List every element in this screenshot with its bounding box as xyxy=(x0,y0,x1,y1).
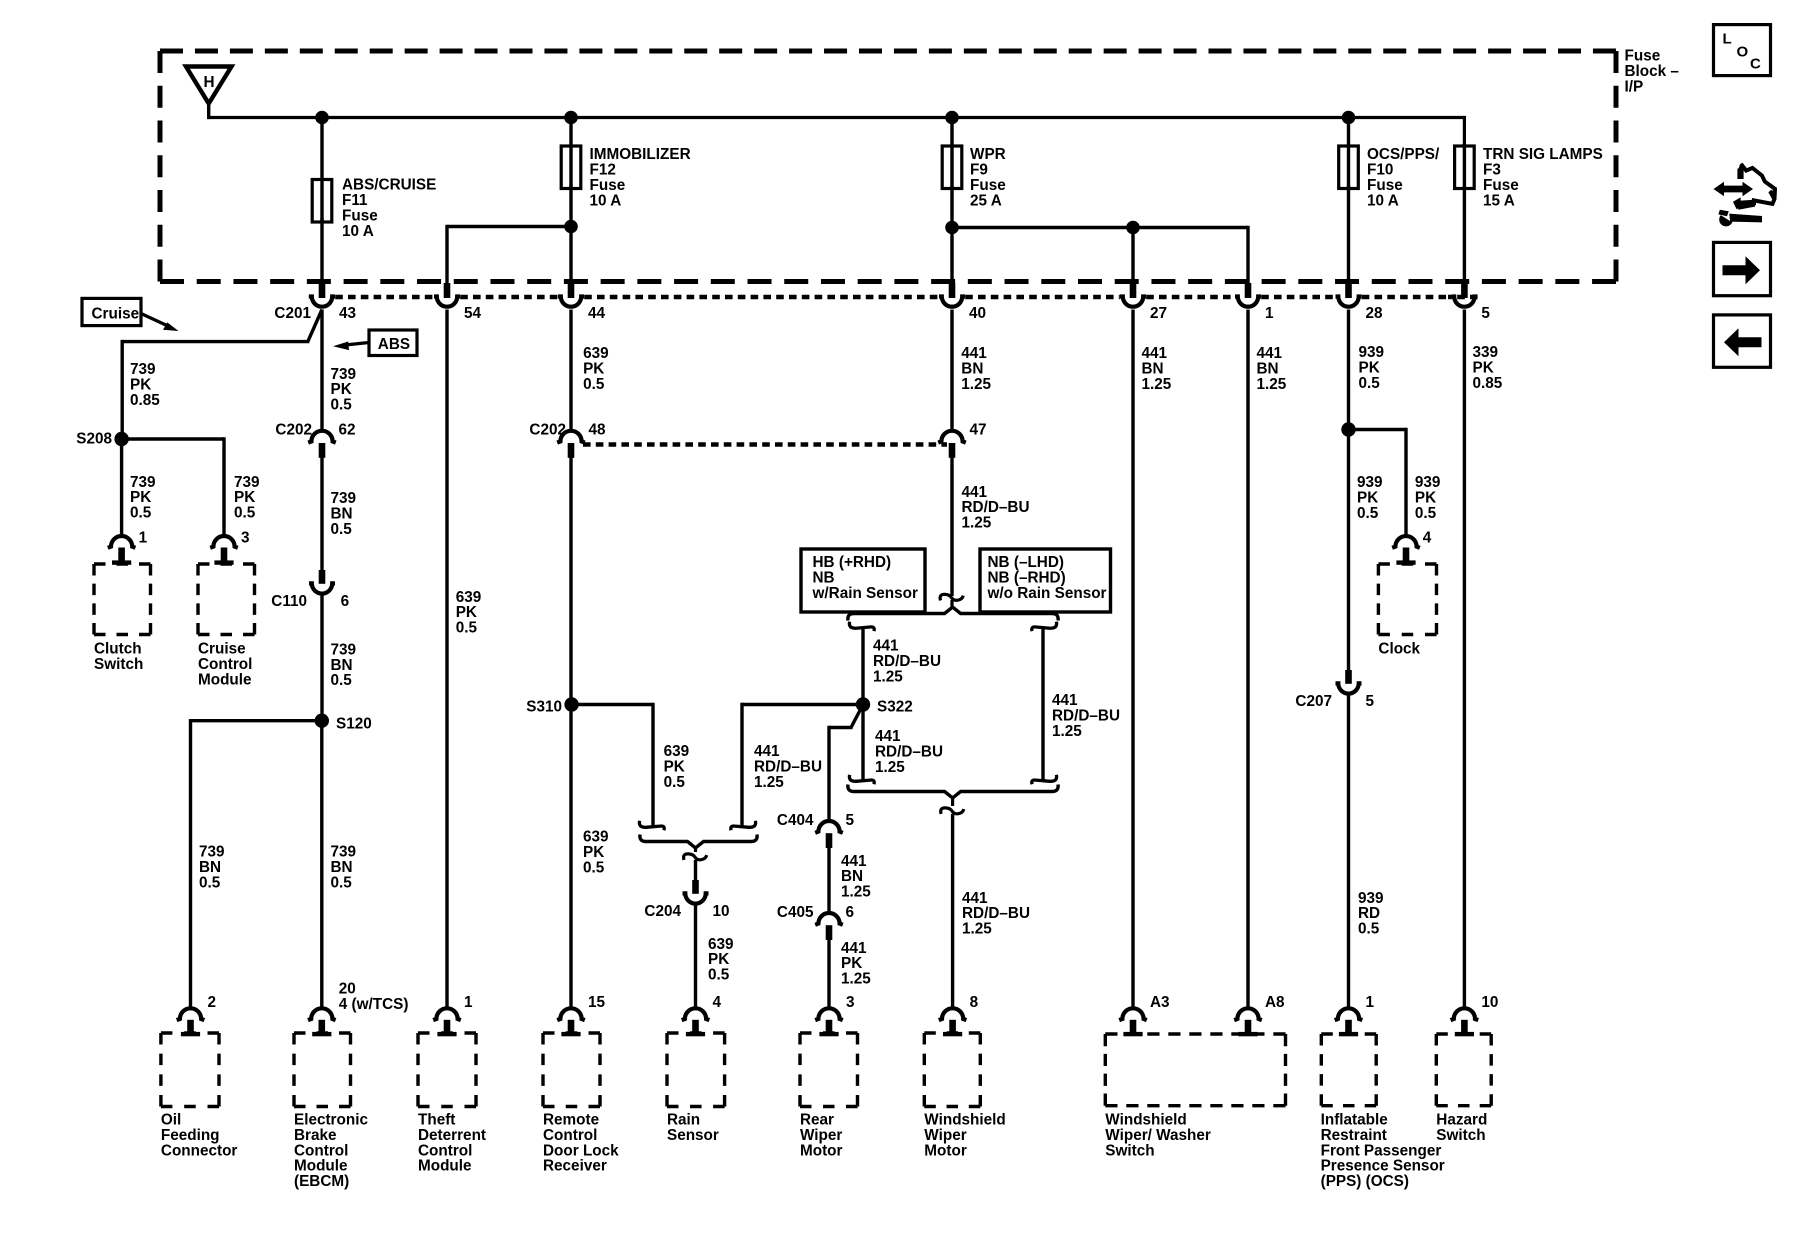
svg-text:0.5: 0.5 xyxy=(583,376,605,393)
label 441 PK 1.25 xyxy=(841,940,871,988)
label box HB (+RHD) NB w/Rain Sensor xyxy=(801,549,925,612)
sleeve right branch start xyxy=(1032,622,1057,631)
svg-text:2: 2 xyxy=(208,994,217,1011)
svg-text:Cruise: Cruise xyxy=(92,306,140,323)
svg-text:27: 27 xyxy=(1150,305,1167,322)
wire S120 branch to oil feeding connector xyxy=(191,719,322,1008)
junction dot pin 27 branch xyxy=(1126,221,1140,235)
label 739 PK 0.5 cruise xyxy=(234,474,260,522)
component Windshield Wiper/Washer Switch xyxy=(1105,1034,1285,1159)
svg-text:S120: S120 xyxy=(336,716,372,733)
component Electronic Brake Control Module EBCM xyxy=(294,1033,368,1190)
svg-text:0.5: 0.5 xyxy=(1357,505,1379,522)
component Remote Control Door Lock Receiver xyxy=(543,1033,619,1175)
label 639 PK 0.5 branch xyxy=(664,743,690,791)
svg-text:Motor: Motor xyxy=(800,1142,843,1159)
svg-text:Module: Module xyxy=(198,671,252,688)
label 739 BN 0.5 oil branch xyxy=(199,844,225,892)
pin 3 rear wiper motor xyxy=(815,994,854,1036)
wire pin 40 to C202-47 xyxy=(950,310,953,431)
fuse F9 WPR 25A xyxy=(942,146,1006,209)
wire S322 diagonal to C404 xyxy=(829,708,862,822)
pin 1 theft deterrent control module xyxy=(433,994,473,1036)
svg-text:5: 5 xyxy=(1481,305,1490,322)
svg-text:1.25: 1.25 xyxy=(1257,376,1287,393)
merge bracket rain sensor xyxy=(640,835,757,848)
svg-text:0.5: 0.5 xyxy=(331,521,353,538)
label 441 RD/D-BU 1.25 left of C404 xyxy=(754,743,822,791)
svg-text:1: 1 xyxy=(139,530,148,547)
svg-text:54: 54 xyxy=(464,305,482,322)
tilde below rain merge xyxy=(684,848,707,880)
pin A3 windshield wiper washer switch xyxy=(1119,994,1169,1036)
wire S310 to remote receiver pin 15 xyxy=(569,705,572,1009)
wire F9 branch to pins 27 and 1 xyxy=(952,226,1248,285)
label 739 PK 0.85 xyxy=(130,361,160,409)
pin 3 cruise control module xyxy=(210,530,249,565)
svg-text:O: O xyxy=(1737,44,1749,61)
svg-text:TRN SIG LAMPS: TRN SIG LAMPS xyxy=(1483,146,1603,163)
connector C404 pin 5 xyxy=(777,812,855,848)
wire pin 27 to switch A3 xyxy=(1131,310,1134,1009)
wire C404 to C405 xyxy=(827,848,830,913)
svg-text:Clock: Clock xyxy=(1378,641,1420,658)
svg-text:3: 3 xyxy=(846,994,855,1011)
connector pin 40 xyxy=(939,283,986,322)
svg-text:C405: C405 xyxy=(777,904,814,921)
connector pin 28 xyxy=(1336,283,1384,322)
wire S322 down to merge xyxy=(861,705,864,781)
sleeve end S322 down branch xyxy=(849,775,874,784)
svg-text:10 A: 10 A xyxy=(590,192,622,209)
wire right branch down xyxy=(1041,628,1044,781)
junction dot F10 xyxy=(1342,111,1356,125)
connector C207 pin 5 xyxy=(1295,670,1374,710)
svg-text:10 A: 10 A xyxy=(342,223,374,240)
label 739 PK 0.5 clutch xyxy=(130,474,156,522)
svg-text:0.5: 0.5 xyxy=(583,860,605,877)
svg-text:0.5: 0.5 xyxy=(331,874,353,891)
fuse F3 TRN SIG LAMPS 15A xyxy=(1455,146,1603,209)
svg-text:w/Rain Sensor: w/Rain Sensor xyxy=(812,585,918,602)
component Rear Wiper Motor xyxy=(800,1033,858,1159)
svg-text:43: 43 xyxy=(339,305,356,322)
label 441 RD/D-BU 1.25 wiper motor xyxy=(962,890,1030,938)
label 639 PK 0.5 rain xyxy=(708,936,734,984)
svg-text:4 (w/TCS): 4 (w/TCS) xyxy=(339,996,409,1013)
svg-text:10 A: 10 A xyxy=(1367,192,1399,209)
label 441 RD/D-BU 1.25 above S322 xyxy=(873,638,941,686)
wire branch to clock pin 4 xyxy=(1349,428,1407,536)
svg-text:4: 4 xyxy=(713,994,722,1011)
svg-text:40: 40 xyxy=(969,305,986,322)
LOC reference box xyxy=(1714,25,1771,76)
wire C202-62 to C110 xyxy=(320,458,323,571)
svg-text:0.5: 0.5 xyxy=(199,874,221,891)
component Rain Sensor xyxy=(667,1033,725,1144)
wire F10 to pin 28 xyxy=(1347,185,1350,285)
svg-text:C202: C202 xyxy=(275,422,312,439)
right arrow nav box xyxy=(1714,242,1771,295)
svg-text:1.25: 1.25 xyxy=(841,884,871,901)
wire F12 to pin 44 xyxy=(569,185,572,285)
label 939 RD 0.5 xyxy=(1358,890,1384,938)
connector row dotted line xyxy=(309,295,1478,299)
label 739 BN 0.5 xyxy=(331,490,357,538)
connector pin 54 xyxy=(434,283,482,322)
wire S208 to cruise control module pin 3 xyxy=(122,437,224,536)
pin 15 remote control door lock receiver xyxy=(557,994,605,1036)
svg-text:0.5: 0.5 xyxy=(234,505,256,522)
wire F9 to pin 40 xyxy=(950,185,953,285)
wrench icon xyxy=(1718,208,1762,227)
svg-text:w/o Rain Sensor: w/o Rain Sensor xyxy=(987,585,1107,602)
label 441 BN 1.25 pin27 xyxy=(1142,345,1172,393)
battery feed triangle H xyxy=(186,67,232,104)
wire pin 28 down xyxy=(1347,310,1350,671)
bent arrow outline icon xyxy=(1733,163,1775,209)
wire C202-48 to S310 xyxy=(569,458,572,705)
sleeve left branch start xyxy=(849,622,874,631)
svg-text:25 A: 25 A xyxy=(970,192,1002,209)
svg-text:47: 47 xyxy=(970,422,987,439)
svg-text:6: 6 xyxy=(341,593,350,610)
svg-text:Connector: Connector xyxy=(161,1142,238,1159)
wire C204 to rain sensor pin 4 xyxy=(694,905,697,1009)
wire S208 to clutch switch pin 1 xyxy=(120,439,123,536)
svg-text:1: 1 xyxy=(464,994,473,1011)
junction dot F11 xyxy=(315,111,329,125)
junction dot clock branch xyxy=(1341,422,1355,436)
wire S310 branch to rain sensor merge xyxy=(572,703,653,827)
svg-text:Switch: Switch xyxy=(94,656,143,673)
svg-text:H: H xyxy=(203,74,214,91)
wire bus to F10 xyxy=(1347,118,1350,191)
svg-text:Switch: Switch xyxy=(1436,1127,1485,1144)
connector C202 pin 62 xyxy=(275,422,355,458)
svg-text:44: 44 xyxy=(588,305,606,322)
svg-text:C: C xyxy=(1750,56,1761,73)
svg-text:I/P: I/P xyxy=(1625,79,1644,96)
wire C202-47 down to split xyxy=(950,458,953,597)
sleeve end S322 branch xyxy=(731,821,756,830)
svg-text:0.5: 0.5 xyxy=(1415,505,1437,522)
label 441 BN 1.25 pin40 xyxy=(961,345,991,393)
connector C204 pin 10 xyxy=(644,880,729,920)
wire F12 branch to pin 54 xyxy=(447,225,571,285)
junction dot F9 xyxy=(945,111,959,125)
svg-text:1: 1 xyxy=(1366,994,1375,1011)
svg-text:C110: C110 xyxy=(271,593,307,610)
junction dot F12 branch xyxy=(564,220,578,234)
wire pin 54 to theft deterrent module xyxy=(445,310,448,1009)
svg-text:0.5: 0.5 xyxy=(1358,921,1380,938)
svg-text:0.5: 0.5 xyxy=(664,774,686,791)
svg-text:10: 10 xyxy=(713,903,730,920)
tilde above split bracket xyxy=(940,594,963,608)
svg-text:(EBCM): (EBCM) xyxy=(294,1173,349,1190)
label Fuse Block - I/P xyxy=(1625,48,1680,96)
label 939 PK 0.5 clock branch right xyxy=(1415,474,1441,522)
svg-text:0.85: 0.85 xyxy=(130,392,160,409)
label 639 PK 0.5 remote xyxy=(583,829,609,877)
connector C202 pin 48 xyxy=(529,422,606,458)
label box Cruise xyxy=(82,298,141,325)
svg-text:C404: C404 xyxy=(777,812,814,829)
svg-text:0.5: 0.5 xyxy=(331,672,353,689)
svg-text:1: 1 xyxy=(1265,305,1274,322)
pin 2 oil feeding connector xyxy=(177,994,216,1036)
pin A8 windshield wiper washer switch xyxy=(1234,994,1285,1036)
connector pin 44 xyxy=(558,283,606,322)
tilde below wiper merge xyxy=(941,798,964,1008)
svg-text:Module: Module xyxy=(418,1158,472,1175)
component Theft Deterrent Control Module xyxy=(418,1033,486,1175)
pin 4 clock xyxy=(1392,530,1432,565)
svg-text:1.25: 1.25 xyxy=(841,971,871,988)
svg-text:4: 4 xyxy=(1423,530,1432,547)
svg-text:1.25: 1.25 xyxy=(1052,723,1082,740)
connector C201 pin 43 xyxy=(274,283,356,322)
svg-text:0.5: 0.5 xyxy=(1359,375,1381,392)
split bracket wire alternatives xyxy=(848,607,1058,620)
junction S120 xyxy=(315,714,372,733)
label 639 PK 0.5 theft xyxy=(456,589,482,637)
wire pin 1 to switch A8 xyxy=(1246,310,1249,1009)
sleeve end S310 branch xyxy=(639,821,664,830)
svg-text:C207: C207 xyxy=(1295,693,1332,710)
left arrow nav box xyxy=(1714,315,1771,367)
wire C405 to rear wiper motor pin 3 xyxy=(827,940,830,1009)
label 639 PK 0.5 pin44 xyxy=(583,345,609,393)
svg-text:15: 15 xyxy=(588,994,606,1011)
svg-text:5: 5 xyxy=(1366,693,1375,710)
svg-text:0.5: 0.5 xyxy=(130,505,152,522)
component Cruise Control Module xyxy=(198,564,255,688)
pin 4 rain sensor xyxy=(682,994,722,1036)
svg-text:L: L xyxy=(1723,31,1732,48)
merge bracket windshield wiper motor xyxy=(848,785,1058,798)
power bus wire xyxy=(207,116,1464,147)
wire F11 to C201 pin 43 xyxy=(320,218,323,285)
connector pin 1 xyxy=(1235,283,1274,322)
svg-text:1.25: 1.25 xyxy=(961,376,991,393)
sleeve end right branch xyxy=(1032,775,1057,784)
label 739 BN 0.5 below C110 xyxy=(331,641,357,689)
svg-text:S208: S208 xyxy=(76,431,112,448)
arrow Cruise callout xyxy=(141,314,179,332)
svg-text:62: 62 xyxy=(339,422,356,439)
svg-text:A8: A8 xyxy=(1265,994,1285,1011)
pin 1 passenger presence sensor xyxy=(1335,994,1375,1036)
junction S208 xyxy=(76,431,129,448)
arrow ABS callout xyxy=(333,342,369,351)
label box NB (-LHD) NB (-RHD) w/o Rain Sensor xyxy=(980,549,1111,612)
svg-text:0.5: 0.5 xyxy=(456,620,478,637)
svg-text:(PPS) (OCS): (PPS) (OCS) xyxy=(1321,1173,1409,1190)
svg-text:48: 48 xyxy=(589,422,607,439)
label box ABS xyxy=(369,330,417,356)
junction S310 xyxy=(526,697,579,715)
svg-text:0.85: 0.85 xyxy=(1473,375,1503,392)
connector C202 pin 47 xyxy=(938,422,986,458)
component Windshield Wiper Motor xyxy=(924,1033,1005,1159)
wire S322 left branch to merge xyxy=(742,703,863,827)
double arrow icon xyxy=(1714,182,1754,196)
label 739 BN 0.5 EBCM xyxy=(331,844,357,892)
svg-text:10: 10 xyxy=(1481,994,1498,1011)
svg-text:28: 28 xyxy=(1366,305,1384,322)
wire C110 to S120 xyxy=(320,595,323,721)
component Hazard Switch xyxy=(1436,1034,1491,1144)
svg-text:Switch: Switch xyxy=(1105,1142,1154,1159)
svg-text:A3: A3 xyxy=(1150,994,1170,1011)
wire S120 to EBCM pin 20 xyxy=(320,721,323,1009)
label 441 BN 1.25 xyxy=(841,853,871,901)
wire pin 43 to C202-62 xyxy=(320,310,323,431)
svg-text:1.25: 1.25 xyxy=(962,921,992,938)
wire left branch to S322 xyxy=(861,628,864,705)
svg-text:Receiver: Receiver xyxy=(543,1158,607,1175)
connector C405 pin 6 xyxy=(777,904,854,940)
pin 20 / 4 (w/TCS) EBCM xyxy=(308,981,408,1037)
junction dot F12 xyxy=(564,111,578,125)
wire pin 5 to hazard switch xyxy=(1463,310,1466,1009)
svg-text:C201: C201 xyxy=(274,305,311,322)
svg-text:0.5: 0.5 xyxy=(331,397,353,414)
fuse F10 OCS/PPS 10A xyxy=(1339,146,1440,209)
pin 8 windshield wiper motor xyxy=(939,994,979,1036)
wire C207 to PPS pin 1 xyxy=(1347,695,1350,1009)
fuse F12 IMMOBILIZER 10A xyxy=(561,146,690,209)
component Oil Feeding Connector xyxy=(161,1033,238,1159)
component Inflatable Restraint PPS OCS xyxy=(1321,1034,1445,1190)
svg-text:Sensor: Sensor xyxy=(667,1127,719,1144)
label 441 RD/D-BU 1.25 pin47 xyxy=(962,484,1030,532)
pin 1 clutch switch xyxy=(108,530,148,565)
fuse F11 ABS/CRUISE 10A xyxy=(312,177,436,240)
label 441 RD/D-BU 1.25 right branch xyxy=(1052,692,1120,740)
svg-text:3: 3 xyxy=(241,530,250,547)
wire bus to F9 xyxy=(950,118,953,191)
svg-text:Motor: Motor xyxy=(924,1142,967,1159)
component Clock xyxy=(1378,564,1436,658)
svg-text:8: 8 xyxy=(970,994,979,1011)
svg-text:1.25: 1.25 xyxy=(873,668,903,685)
svg-text:ABS: ABS xyxy=(378,336,410,353)
fuse block I/P dashed border xyxy=(160,51,1616,282)
label 739 PK 0.5 xyxy=(331,366,357,414)
C202 dotted connector line xyxy=(583,442,947,446)
wire pin 43 diagonal to cruise branch xyxy=(122,310,322,440)
junction dot F9 branch xyxy=(945,221,959,235)
svg-text:1.25: 1.25 xyxy=(754,774,784,791)
wire F3 to pin 5 xyxy=(1463,144,1466,285)
wire bus to F11 xyxy=(320,118,323,223)
label 939 PK 0.5 pin28 xyxy=(1359,344,1385,392)
pin 10 hazard switch xyxy=(1451,994,1499,1036)
label 339 PK 0.85 xyxy=(1473,344,1503,392)
junction S322 xyxy=(856,697,913,715)
svg-text:C204: C204 xyxy=(644,903,681,920)
svg-text:0.5: 0.5 xyxy=(708,967,730,984)
svg-text:15 A: 15 A xyxy=(1483,192,1515,209)
wire pin 44 to C202-48 xyxy=(569,310,572,431)
svg-text:5: 5 xyxy=(846,812,855,829)
wire bus to F12 xyxy=(569,118,572,191)
svg-text:C202: C202 xyxy=(529,422,566,439)
label 939 PK 0.5 clock branch left xyxy=(1357,474,1383,522)
wire H to bus xyxy=(207,101,210,119)
svg-text:6: 6 xyxy=(846,904,855,921)
connector C110 pin 6 xyxy=(271,570,349,610)
label 441 RD/D-BU 1.25 below S322 xyxy=(875,728,943,776)
svg-text:S322: S322 xyxy=(877,699,913,716)
svg-text:1.25: 1.25 xyxy=(875,759,905,776)
svg-text:1.25: 1.25 xyxy=(962,515,992,532)
svg-text:S310: S310 xyxy=(526,699,562,716)
component Clutch Switch xyxy=(94,564,151,673)
connector pin 27 xyxy=(1120,283,1167,322)
connector pin 5 xyxy=(1451,283,1490,322)
svg-text:1.25: 1.25 xyxy=(1142,376,1172,393)
label 441 BN 1.25 pin1 xyxy=(1257,345,1287,393)
